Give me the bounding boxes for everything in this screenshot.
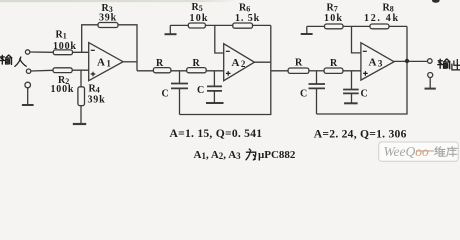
svg-text:WeeQoo: WeeQoo — [384, 144, 430, 159]
A2 plus sign — [226, 71, 231, 76]
wire chain A1 out to first R — [137, 70, 153, 72]
wire — [171, 70, 187, 72]
A1 plus sign — [91, 72, 96, 77]
wire input1 to R1 — [30, 51, 54, 53]
wire chain stage3 — [271, 70, 288, 72]
input terminal 2 — [26, 69, 30, 73]
svg-text:A=2. 24, Q=1. 306: A=2. 24, Q=1. 306 — [314, 128, 407, 141]
output terminal 2 — [428, 73, 433, 78]
wire A3 minus leg — [352, 26, 361, 53]
wire input2 to R2 — [31, 69, 53, 72]
svg-text:39k: 39k — [88, 95, 106, 106]
scan artifact top band — [0, 0, 238, 2]
ground stage3 R7 — [301, 33, 313, 35]
wire A2 minus leg — [215, 25, 224, 53]
svg-text:C: C — [300, 89, 307, 100]
resistor R7 — [325, 24, 344, 29]
label shuchu output — [438, 59, 450, 69]
wire A1 output — [123, 61, 137, 63]
watermark box — [379, 142, 459, 161]
capacitor C stage3 feedback plates — [309, 84, 326, 88]
ground stage2 R5 — [165, 33, 177, 35]
wire — [309, 70, 324, 72]
svg-text:12. 4k: 12. 4k — [364, 13, 400, 24]
wire A2 output — [254, 61, 270, 63]
wire R4 stem — [80, 70, 82, 87]
svg-text:C: C — [197, 85, 204, 96]
wire A3 output to terminal — [394, 60, 427, 62]
svg-text:39k: 39k — [99, 13, 117, 24]
svg-text:A3: A3 — [369, 57, 383, 69]
op-amp A2 — [224, 44, 255, 81]
glyph wei4 in footnote — [246, 149, 256, 160]
resistor R (stage2 b) — [187, 68, 207, 73]
svg-text:C: C — [361, 89, 368, 100]
wire to A3 plus — [343, 70, 361, 72]
svg-text:R4: R4 — [89, 84, 100, 95]
junction node output — [405, 59, 409, 63]
svg-text:R: R — [295, 58, 303, 69]
resistor R3 — [98, 23, 118, 28]
wire to A2 plus — [206, 70, 224, 72]
wire R1 to A1 minus — [73, 51, 89, 53]
svg-text:A1: A1 — [97, 57, 111, 69]
capacitor C stage3 gnd stem — [351, 71, 353, 103]
svg-text:A2: A2 — [232, 57, 246, 69]
svg-text:R7: R7 — [327, 3, 338, 14]
ground R4 — [80, 106, 82, 124]
svg-text:10k: 10k — [190, 13, 209, 24]
resistor R (stage3 a) — [288, 68, 309, 73]
wire ground to R7 — [307, 25, 325, 27]
A3 minus sign — [363, 50, 367, 52]
ground output — [429, 78, 431, 89]
capacitor C stage2 feedback plates — [171, 84, 188, 89]
resistor R2 — [53, 68, 72, 73]
svg-text:A=1. 15, Q=0. 541: A=1. 15, Q=0. 541 — [170, 127, 263, 140]
svg-text:100k: 100k — [51, 84, 75, 95]
resistor R5 — [188, 23, 205, 28]
wire R7 to R8 — [343, 25, 370, 27]
ground stage2 C — [206, 102, 224, 104]
input terminal 1 — [25, 50, 29, 54]
svg-text:R6: R6 — [239, 3, 250, 14]
capacitor C stage2 gnd plates — [207, 86, 222, 91]
svg-text:C: C — [162, 89, 169, 100]
resistor R (stage2 a) — [153, 68, 171, 73]
bottom rail stage3 — [317, 26, 408, 114]
capacitor C stage3 feedback stem — [316, 71, 318, 114]
bottom rail stage2 — [180, 25, 271, 114]
svg-text:μPC882: μPC882 — [258, 149, 296, 161]
input ground terminal — [25, 82, 31, 88]
capacitor C stage3 gnd plates — [343, 90, 359, 94]
resistor R6 — [233, 23, 253, 28]
wire R3 right leg — [118, 25, 137, 71]
svg-text:R1: R1 — [56, 30, 67, 41]
wire R5 to R6 — [205, 24, 232, 26]
capacitor C stage2 gnd stem — [213, 71, 215, 103]
wire R3 left leg — [82, 25, 98, 53]
resistor R (stage3 b) — [324, 68, 343, 73]
op-amp input signs — [91, 50, 368, 76]
svg-text:10k: 10k — [324, 13, 343, 24]
watermark wei2 — [435, 147, 445, 157]
op-amp A3 — [361, 43, 394, 80]
svg-text:A1, A2, A3: A1, A2, A3 — [194, 149, 242, 161]
ground input — [27, 88, 29, 105]
A2 minus sign — [226, 50, 230, 52]
resistor R8 — [370, 24, 389, 29]
svg-text:100k: 100k — [53, 41, 77, 52]
svg-text:R8: R8 — [383, 3, 394, 14]
svg-text:R: R — [156, 58, 164, 69]
svg-text:R: R — [193, 58, 201, 69]
svg-text:1. 5k: 1. 5k — [235, 13, 260, 24]
svg-text:R5: R5 — [192, 2, 203, 13]
wire R8 right — [389, 25, 407, 27]
wire ground to R5 — [170, 24, 188, 26]
resistor R4 — [78, 87, 85, 106]
capacitor C stage2 feedback stem — [179, 71, 181, 115]
svg-text:R: R — [330, 58, 338, 69]
scan artifact blob top right — [432, 0, 440, 3]
ground stage3 C — [344, 102, 358, 104]
watermark strike line — [416, 150, 434, 152]
watermark ku — [447, 147, 457, 157]
wire R6 right — [253, 24, 271, 26]
output terminal 1 — [428, 59, 433, 64]
op-amp A1 — [89, 43, 123, 81]
resistor R1 — [53, 50, 72, 55]
A1 minus sign — [91, 49, 95, 51]
wire R2 to A1 plus — [72, 69, 89, 71]
A3 plus sign — [363, 71, 368, 76]
label shuru input — [0, 55, 12, 64]
